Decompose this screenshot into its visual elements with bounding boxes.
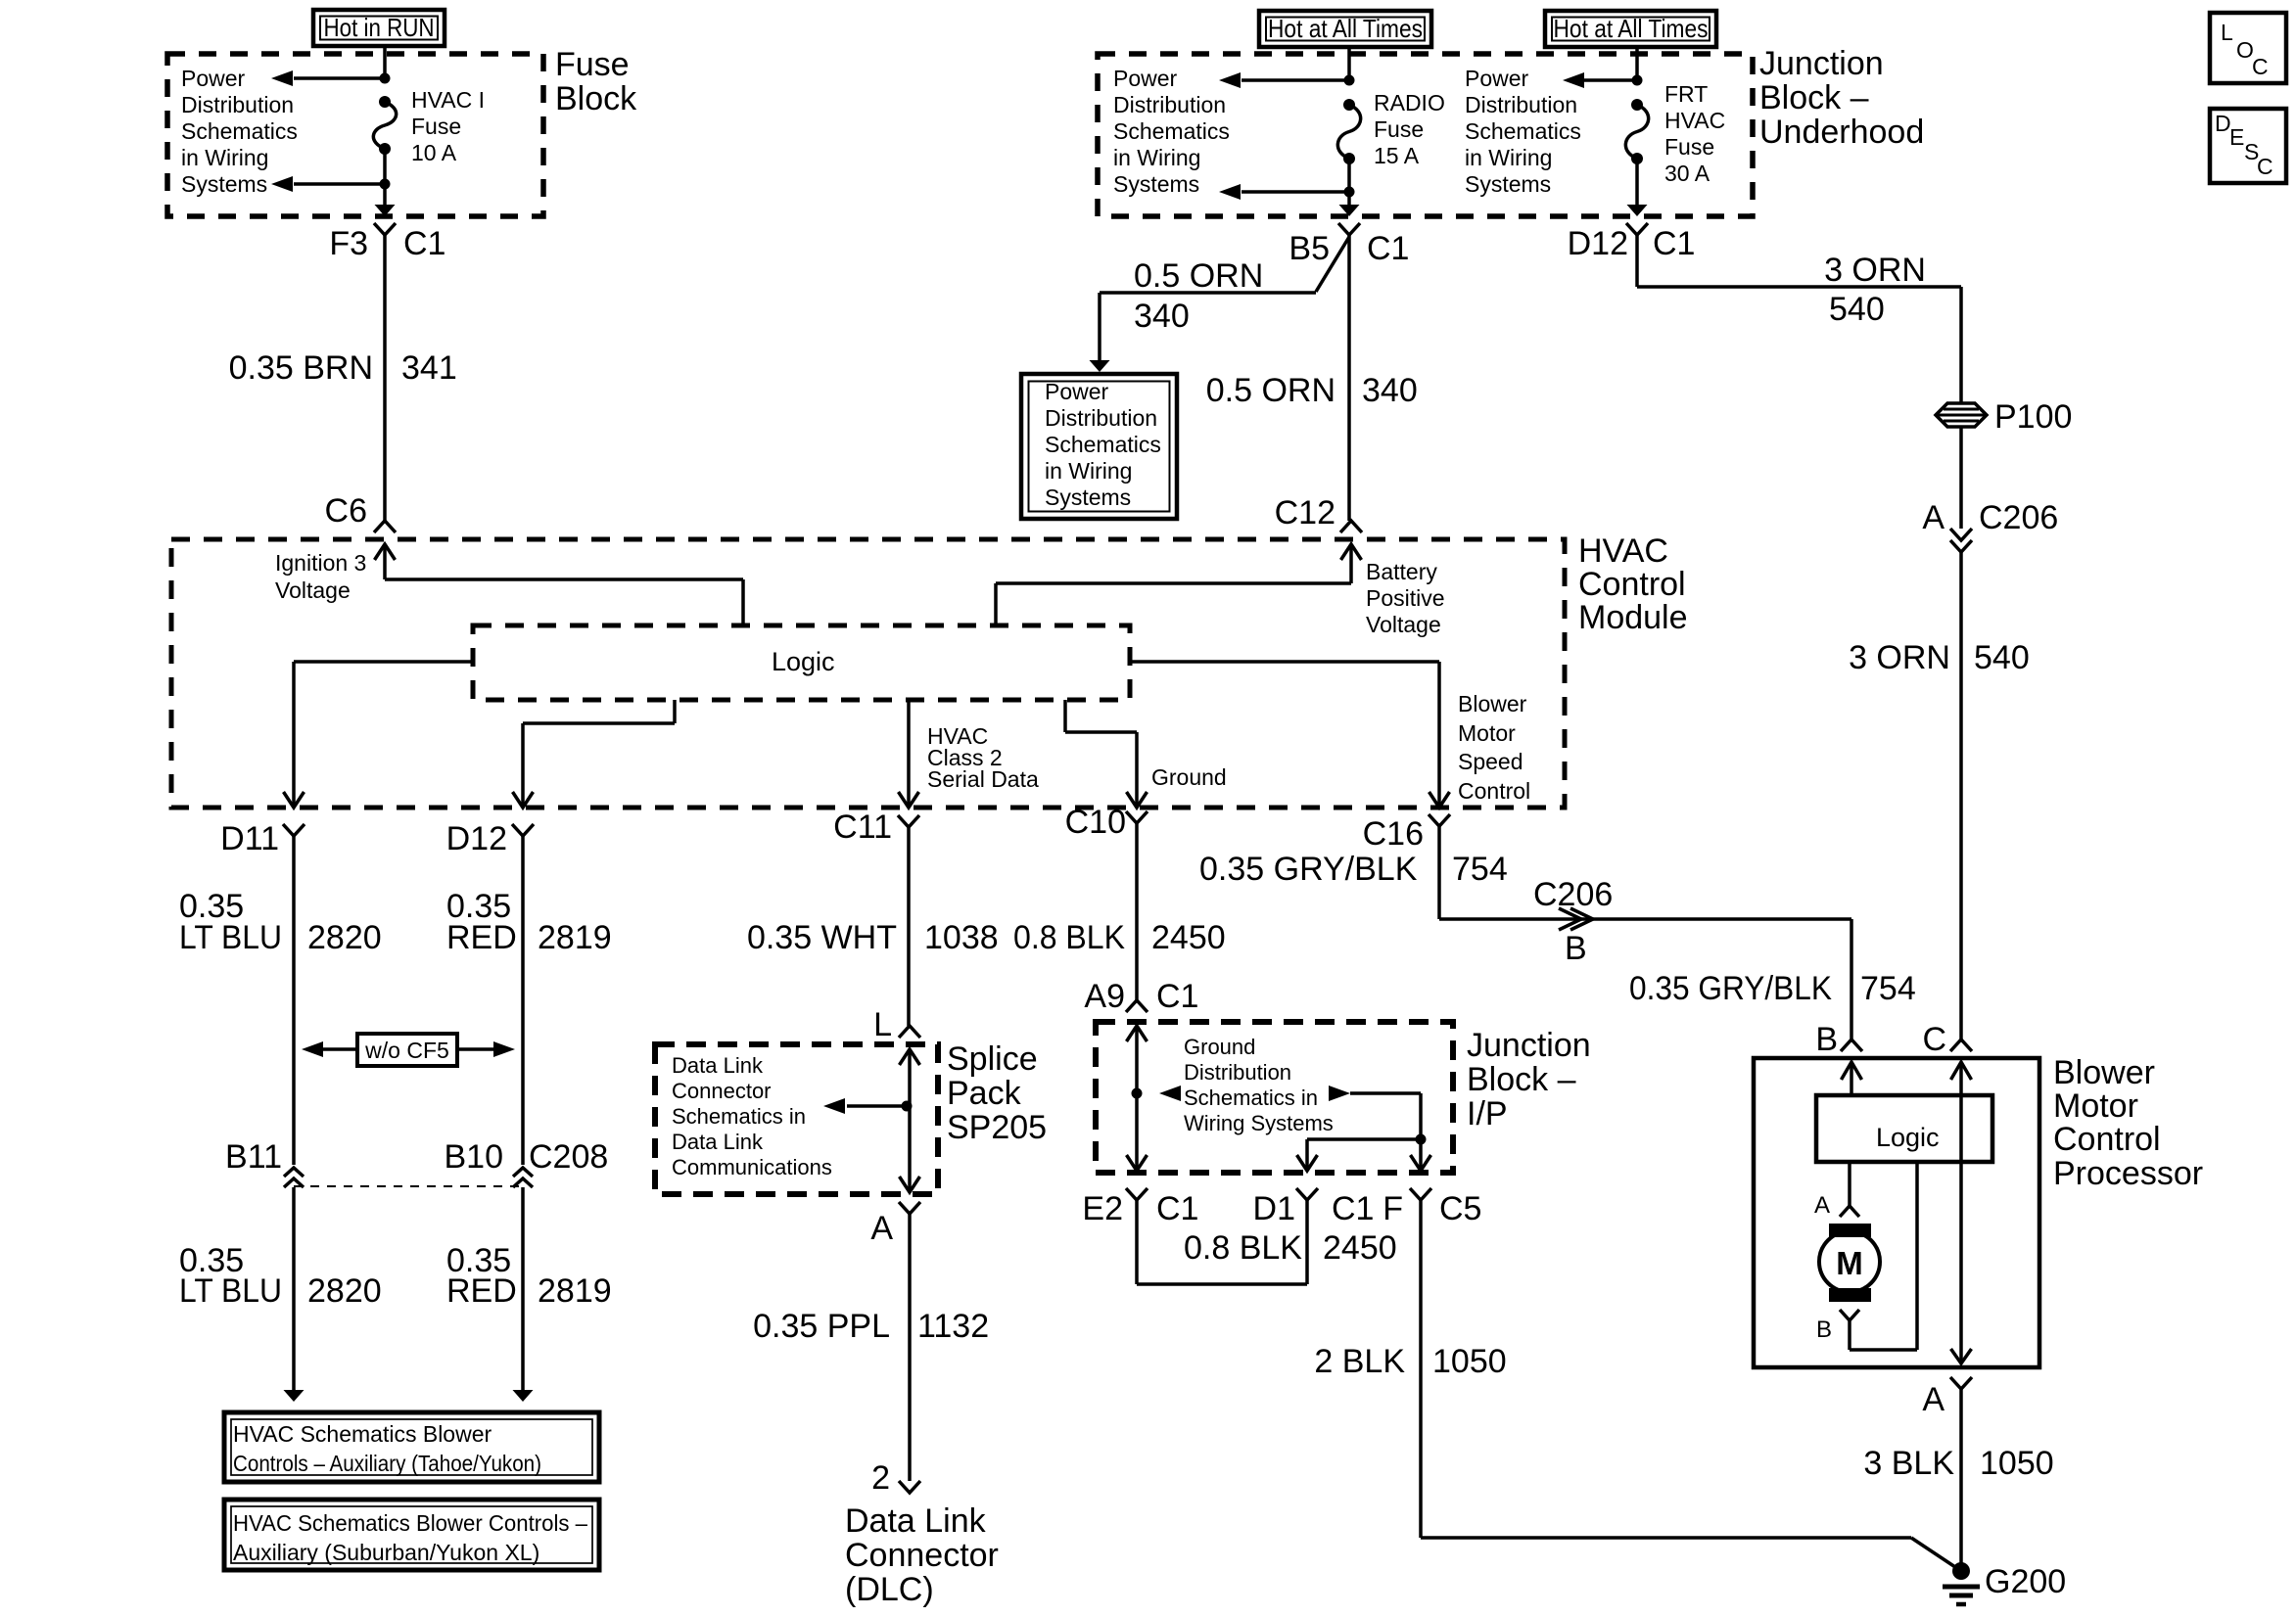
connector chevron D1 (1296, 1188, 1318, 1200)
connector C5 label (1439, 1190, 1481, 1227)
net Ignition 3 Voltage (275, 550, 366, 603)
svg-text:in Wiring: in Wiring (181, 145, 268, 170)
connector chevron A (splice) (899, 1202, 920, 1214)
svg-text:0.5 ORN: 0.5 ORN (1134, 257, 1263, 295)
svg-text:F3: F3 (329, 225, 368, 262)
svg-text:Distribution: Distribution (1113, 92, 1226, 117)
wire F to G200 2 BLK 1050 (1421, 1200, 1958, 1569)
fuse RADIO 15 A (1337, 99, 1360, 164)
wire C206 to C 3 ORN 540 (1959, 552, 1963, 1039)
connector chevron B10 (513, 1168, 533, 1187)
pin D12 (underhood) (1568, 225, 1628, 262)
svg-text:Fuse: Fuse (411, 114, 461, 139)
svg-text:B5: B5 (1289, 230, 1330, 267)
svg-text:Fuse: Fuse (1374, 116, 1424, 142)
pin C11 (833, 808, 892, 846)
wire branch diagonal at B5 (1316, 237, 1349, 292)
wire logic to D12 (513, 700, 676, 808)
svg-text:754: 754 (1452, 851, 1508, 888)
svg-text:Blower: Blower (2053, 1054, 2155, 1091)
junction on F3 wire top (380, 73, 391, 84)
pin B10 (445, 1138, 504, 1176)
svg-text:C: C (1922, 1021, 1946, 1058)
label 540 (top) (1829, 291, 1885, 328)
svg-text:D12: D12 (1568, 225, 1628, 262)
label 2 BLK (1314, 1343, 1405, 1380)
svg-text:0.35 PPL: 0.35 PPL (753, 1308, 890, 1345)
label 340 (1362, 372, 1418, 409)
arrow into blower at C (1951, 1062, 1972, 1080)
wire logic to C10 ground (1065, 700, 1148, 808)
arrow into module at C6 (375, 544, 396, 560)
power label Hot at All Times (radio) (1259, 11, 1431, 47)
label 754 (upper) (1452, 851, 1508, 888)
wire B to logic (blower) (1850, 1062, 1853, 1095)
connector C1 (radio) (1367, 230, 1409, 267)
svg-text:1050: 1050 (1432, 1343, 1507, 1380)
title Junction Block - I/P (1467, 1027, 1591, 1132)
label 2450 (lower) (1323, 1229, 1397, 1267)
svg-text:2 BLK: 2 BLK (1314, 1343, 1405, 1380)
wire A to DLC 0.35 PPL 1132 (908, 1214, 912, 1481)
svg-text:10 A: 10 A (411, 140, 457, 165)
svg-text:Systems: Systems (1045, 485, 1131, 510)
pin B (C206) (1565, 930, 1587, 967)
svg-text:B: B (1815, 1021, 1838, 1058)
svg-text:0.35 BRN: 0.35 BRN (229, 349, 373, 387)
connector chevron C10 (1126, 811, 1148, 823)
wire C through blower (1951, 1062, 1972, 1363)
svg-text:Control: Control (1578, 566, 1686, 603)
power label Hot at All Times (frt hvac) (1545, 11, 1716, 47)
svg-text:Data Link: Data Link (845, 1502, 987, 1540)
pin D11 (220, 820, 279, 857)
svg-text:0.35 WHT: 0.35 WHT (747, 919, 897, 956)
svg-text:Block –: Block – (1467, 1061, 1576, 1098)
svg-text:341: 341 (401, 349, 457, 387)
label 540 (mid) (1974, 639, 2030, 676)
label 2819 (lower) (538, 1272, 612, 1310)
junction dot (F branch) (1416, 1134, 1427, 1145)
svg-text:Block –: Block – (1759, 79, 1869, 116)
pin A (blower exit) (1922, 1381, 1945, 1418)
svg-text:D11: D11 (220, 820, 279, 857)
wire logic to C11 serial data (899, 700, 919, 808)
svg-text:P100: P100 (1994, 398, 2072, 436)
svg-text:Power: Power (1045, 379, 1109, 404)
label 0.35 (ltblu lower) (179, 1242, 244, 1279)
wire C6 to logic (385, 544, 743, 625)
svg-text:Blower: Blower (1458, 691, 1527, 716)
svg-text:0.8 BLK: 0.8 BLK (1013, 919, 1125, 956)
ground G200 (1943, 1562, 1980, 1604)
svg-text:1050: 1050 (1980, 1445, 2054, 1482)
label G200 (1985, 1563, 2066, 1600)
svg-text:A: A (870, 1210, 893, 1247)
svg-text:Controls – Auxiliary (Tahoe/Yu: Controls – Auxiliary (Tahoe/Yukon) (233, 1451, 541, 1476)
fuse FRT HVAC 30 A (1625, 99, 1648, 164)
wire A to G200 3 BLK 1050 (1959, 1389, 1963, 1566)
label 341 (401, 349, 457, 387)
wire through splice pack (900, 1049, 920, 1192)
label 0.35 GRY/BLK (lower) (1629, 970, 1832, 1007)
svg-text:Positive: Positive (1366, 585, 1445, 611)
title Fuse Block (555, 46, 637, 117)
pin B5 (1289, 230, 1330, 267)
label 2819 (upper) (538, 919, 612, 956)
svg-text:Serial Data: Serial Data (927, 766, 1039, 792)
svg-text:HVAC I: HVAC I (411, 87, 485, 113)
arrow to data link note (823, 1098, 907, 1114)
label 3 BLK (1863, 1445, 1954, 1482)
svg-text:Schematics: Schematics (1113, 118, 1230, 144)
svg-text:3 ORN: 3 ORN (1849, 639, 1950, 676)
svg-text:Splice: Splice (947, 1040, 1038, 1078)
splice pack dashed box (655, 1044, 938, 1194)
svg-text:Power: Power (1113, 66, 1178, 91)
svg-text:Logic: Logic (1876, 1123, 1940, 1152)
svg-text:Logic: Logic (772, 647, 835, 676)
connector C208 dashed link (294, 1185, 523, 1187)
svg-text:C: C (2257, 154, 2273, 179)
module HVAC Control Module dashed box (171, 539, 1565, 808)
label RED (lower) (446, 1272, 517, 1310)
svg-text:w/o CF5: w/o CF5 (364, 1038, 449, 1063)
svg-text:Pack: Pack (947, 1075, 1022, 1112)
svg-text:Systems: Systems (181, 171, 267, 197)
connector chevron A (blower exit) (1950, 1377, 1972, 1389)
svg-text:Junction: Junction (1467, 1027, 1591, 1064)
svg-text:Systems: Systems (1465, 171, 1551, 197)
label 0.8 BLK (upper) (1013, 919, 1125, 956)
pin D12 (446, 820, 507, 857)
pin C6 (325, 492, 367, 530)
svg-text:Motor: Motor (2053, 1087, 2138, 1125)
pin 2 (DLC) (871, 1459, 890, 1497)
pin B (motor) (1816, 1317, 1832, 1343)
wire hot to radio fuse (1347, 47, 1351, 80)
label 754 (lower) (1860, 970, 1916, 1007)
connector chevron D12/C1 (1626, 223, 1648, 235)
arrow to power distribution (frt hvac) (1563, 72, 1637, 88)
pin A (splice) (870, 1210, 893, 1247)
svg-text:Hot at All Times: Hot at All Times (1268, 14, 1423, 43)
svg-text:Auxiliary (Suburban/Yukon XL): Auxiliary (Suburban/Yukon XL) (233, 1540, 539, 1565)
svg-text:RED: RED (446, 919, 517, 956)
arrow to power distribution (top, radio) (1219, 72, 1349, 88)
connector chevron B (blower) (1841, 1039, 1862, 1051)
svg-text:D1: D1 (1253, 1190, 1295, 1227)
arrow into splice pack (900, 1049, 920, 1065)
pin B11 (225, 1138, 282, 1176)
svg-text:in Wiring: in Wiring (1045, 458, 1132, 484)
svg-text:in Wiring: in Wiring (1465, 145, 1552, 170)
svg-text:Schematics: Schematics (1465, 118, 1581, 144)
connector chevron C16 (1429, 814, 1450, 826)
svg-text:2819: 2819 (538, 919, 612, 956)
svg-text:C10: C10 (1065, 804, 1126, 841)
label 0.35 GRY/BLK (upper) (1199, 851, 1418, 888)
arrow into module at C12 (1341, 544, 1362, 560)
svg-text:2820: 2820 (307, 1272, 382, 1310)
note power distribution schematics (frt hvac fuse) (1465, 66, 1581, 197)
wire branch to D1 (1297, 1139, 1422, 1171)
arrow to ground dist note (1159, 1086, 1181, 1101)
fuse / junction block dashed box (top) (1098, 54, 1753, 216)
connector chevron E2 (1126, 1188, 1148, 1200)
svg-text:C1: C1 (1653, 225, 1695, 262)
svg-text:Distribution: Distribution (181, 92, 294, 117)
junction dot (ground bus) (1132, 1088, 1143, 1099)
note data link connector schematics (672, 1053, 832, 1179)
svg-text:A: A (1922, 499, 1945, 536)
svg-text:Block: Block (555, 80, 637, 117)
svg-text:Control: Control (2053, 1121, 2161, 1158)
svg-text:2820: 2820 (307, 919, 382, 956)
svg-text:3 ORN: 3 ORN (1824, 252, 1926, 289)
connector chevron D11 (283, 824, 305, 836)
svg-text:Communications: Communications (672, 1155, 832, 1179)
label 0.35 (red upper) (446, 888, 511, 925)
wire P100 to C206-A (1959, 427, 1963, 529)
svg-text:Data Link: Data Link (672, 1053, 764, 1078)
node HVAC schematics Suburban/Yukon XL box (224, 1500, 599, 1570)
arrow to power distribution (bottom, radio) (1219, 184, 1349, 200)
svg-text:RED: RED (446, 1272, 517, 1310)
label 340 (branch) (1134, 298, 1190, 335)
label 3 ORN (mid) (1849, 639, 1950, 676)
svg-text:G200: G200 (1985, 1563, 2066, 1600)
connector chevron B (motor) (1840, 1310, 1859, 1320)
svg-text:C206: C206 (1979, 499, 2058, 536)
motor M1 blower (1819, 1224, 1880, 1302)
svg-text:Control: Control (1458, 778, 1530, 804)
label 2820 (upper) (307, 919, 382, 956)
svg-text:Module: Module (1578, 599, 1688, 636)
svg-text:0.8 BLK: 0.8 BLK (1184, 1229, 1302, 1267)
svg-text:Distribution: Distribution (1045, 405, 1157, 431)
connector chevron DLC pin 2 (899, 1481, 920, 1493)
label 0.5 ORN (1206, 372, 1335, 409)
label 1050 (3blk) (1980, 1445, 2054, 1482)
arrow into junction block (1127, 1026, 1148, 1041)
title HVAC Control Module (1578, 532, 1688, 636)
label P100 (1994, 398, 2072, 436)
svg-text:Underhood: Underhood (1759, 114, 1924, 151)
wire through junction block (1127, 1026, 1148, 1171)
connector chevron B5/C1 (1338, 223, 1360, 235)
wire fuse to F3 output (375, 149, 396, 216)
svg-text:Motor: Motor (1458, 720, 1516, 746)
connector chevron C11 (898, 815, 919, 827)
net Battery Positive Voltage (1366, 559, 1445, 637)
pin C10 (1065, 804, 1126, 841)
svg-text:Junction: Junction (1759, 45, 1884, 82)
svg-text:L: L (2221, 20, 2233, 45)
svg-text:A9: A9 (1084, 978, 1125, 1015)
svg-text:B11: B11 (225, 1138, 282, 1176)
svg-text:RADIO: RADIO (1374, 90, 1445, 115)
svg-text:Ignition 3: Ignition 3 (275, 550, 366, 576)
svg-text:(DLC): (DLC) (845, 1571, 934, 1608)
connector chevron A (motor) (1840, 1206, 1859, 1217)
label HVAC I Fuse 10 A (411, 87, 485, 165)
svg-text:HVAC Schematics Blower Control: HVAC Schematics Blower Controls – (233, 1510, 587, 1536)
pin A (motor) (1814, 1192, 1830, 1219)
svg-text:C1: C1 (1156, 978, 1198, 1015)
connector C1 label (D1) (1332, 1190, 1374, 1227)
svg-text:C12: C12 (1275, 494, 1335, 531)
logic block (blower) (1816, 1095, 1992, 1162)
svg-text:15 A: 15 A (1374, 143, 1420, 168)
connector chevron F (1410, 1188, 1431, 1200)
svg-text:0.35 GRY/BLK: 0.35 GRY/BLK (1199, 851, 1418, 888)
svg-text:Voltage: Voltage (1366, 612, 1441, 637)
svg-text:FRT: FRT (1664, 81, 1708, 107)
pin F (1382, 1190, 1403, 1227)
logic block (hvac module) (473, 625, 1130, 700)
svg-text:Ground: Ground (1184, 1035, 1255, 1059)
wire B10 down 0.35 RED 2819 (513, 1187, 534, 1402)
svg-text:I/P: I/P (1467, 1095, 1508, 1132)
svg-text:C1: C1 (1367, 230, 1409, 267)
note power distribution schematics (radio fuse) (1113, 66, 1230, 197)
node Data Link Connector (DLC) (845, 1502, 999, 1608)
wire C206-B to blower B (1850, 919, 1853, 1039)
svg-text:30 A: 30 A (1664, 161, 1710, 186)
svg-text:Speed: Speed (1458, 749, 1523, 774)
svg-text:340: 340 (1362, 372, 1418, 409)
legend DESC box (2210, 109, 2286, 183)
connector C206 chevrons (inline) (1559, 908, 1593, 930)
fuse block dashed box (167, 54, 543, 216)
svg-text:Schematics in: Schematics in (672, 1104, 806, 1129)
svg-text:Systems: Systems (1113, 171, 1199, 197)
wire C11 to L 0.35 WHT 1038 (907, 827, 911, 1026)
label RED (upper) (446, 919, 517, 956)
svg-text:0.5 ORN: 0.5 ORN (1206, 372, 1335, 409)
svg-text:M: M (1836, 1245, 1863, 1281)
svg-text:Schematics: Schematics (1045, 432, 1161, 457)
wire logic to motor A (1848, 1162, 1851, 1206)
title Blower Motor Control Processor (2053, 1054, 2203, 1192)
wire D11 to B11 0.35 LT BLU 2820 (292, 836, 296, 1165)
svg-text:C1: C1 (403, 225, 445, 262)
svg-text:Distribution: Distribution (1184, 1060, 1291, 1085)
svg-text:540: 540 (1974, 639, 2030, 676)
connector chevron C12 (1340, 521, 1362, 532)
svg-text:SP205: SP205 (947, 1109, 1047, 1146)
label 0.35 (ltblu upper) (179, 888, 244, 925)
wire radio fuse to B5 output (1339, 159, 1360, 216)
junction on F3 wire bottom (380, 179, 391, 190)
svg-text:Schematics: Schematics (181, 118, 298, 144)
svg-text:D12: D12 (446, 820, 507, 857)
svg-text:C1: C1 (1332, 1190, 1374, 1227)
net Ground (hvac module) (1151, 764, 1227, 790)
connector C208 label (529, 1138, 608, 1176)
wire Hot-in-RUN to fuse block (383, 46, 387, 78)
connector C1 label (E2) (1156, 1190, 1198, 1227)
connector chevron A9 (1126, 1000, 1148, 1012)
power label Hot in RUN (313, 10, 445, 46)
label Logic (blower) (1876, 1123, 1940, 1152)
svg-text:Wiring Systems: Wiring Systems (1184, 1111, 1334, 1135)
svg-text:2: 2 (871, 1459, 890, 1497)
label 3 ORN (top) (1824, 252, 1926, 289)
svg-text:B10: B10 (445, 1138, 504, 1176)
svg-text:2819: 2819 (538, 1272, 612, 1310)
arrow w/o CF5 right (457, 1041, 515, 1057)
svg-text:C206: C206 (1533, 876, 1613, 913)
option box w/o CF5 (357, 1034, 457, 1066)
svg-text:HVAC Schematics Blower: HVAC Schematics Blower (233, 1421, 492, 1447)
svg-text:Distribution: Distribution (1465, 92, 1577, 117)
connector C206 label (mid) (1533, 876, 1613, 913)
svg-text:C5: C5 (1439, 1190, 1481, 1227)
svg-text:754: 754 (1860, 970, 1916, 1007)
wire F3 to C6 0.35 BRN 341 (383, 235, 387, 521)
label 0.35 BRN (229, 349, 373, 387)
svg-text:A: A (1922, 1381, 1945, 1418)
label LT BLU (upper) (179, 919, 282, 956)
legend LOC box (2210, 13, 2286, 83)
svg-text:C1: C1 (1156, 1190, 1198, 1227)
arrow to power distribution (top, fuse block) (271, 70, 385, 86)
connector P100 grommet (1936, 403, 1987, 427)
label 1132 (917, 1308, 989, 1345)
label 0.35 PPL (753, 1308, 890, 1345)
svg-text:L: L (873, 1006, 892, 1043)
svg-text:Hot at All Times: Hot at All Times (1554, 14, 1709, 43)
note power distribution schematics (fuse block) (181, 66, 298, 197)
title Splice Pack SP205 (947, 1040, 1047, 1146)
svg-text:HVAC: HVAC (1578, 532, 1668, 570)
connector chevron C6 (374, 521, 396, 532)
note ground distribution schematics (1184, 1035, 1334, 1135)
net HVAC Class 2 Serial Data (927, 723, 1039, 792)
connector chevron F3/C1 (374, 223, 396, 235)
svg-text:in Wiring: in Wiring (1113, 145, 1200, 170)
svg-text:C16: C16 (1363, 815, 1424, 853)
svg-text:Connector: Connector (672, 1079, 772, 1103)
connector chevron L (899, 1026, 920, 1038)
svg-text:C6: C6 (325, 492, 367, 530)
module Blower Motor Control Processor box (1754, 1058, 2039, 1367)
wire note to F branch (1350, 1093, 1431, 1171)
svg-text:LT BLU: LT BLU (179, 919, 282, 956)
svg-text:E: E (2229, 124, 2244, 150)
svg-text:A: A (1814, 1192, 1830, 1219)
svg-text:Ground: Ground (1151, 764, 1227, 790)
wire hot to frt hvac fuse (1635, 47, 1639, 80)
svg-text:0.35 GRY/BLK: 0.35 GRY/BLK (1629, 970, 1832, 1007)
arrow to power distribution (bottom, fuse block) (271, 176, 385, 192)
connector chevron C206-A double (1950, 529, 1972, 552)
svg-text:Power: Power (181, 66, 246, 91)
pin C16 (1363, 815, 1424, 853)
svg-text:540: 540 (1829, 291, 1885, 328)
wire B5 to C12 0.5 ORN 340 (1347, 235, 1351, 521)
connector C1 label (A9) (1156, 978, 1198, 1015)
pin A (C206) (1922, 499, 1945, 536)
svg-text:3 BLK: 3 BLK (1863, 1445, 1954, 1482)
svg-text:C208: C208 (529, 1138, 608, 1176)
pin C (blower) (1922, 1021, 1946, 1058)
arrow w/o CF5 left (302, 1041, 357, 1057)
svg-text:1132: 1132 (917, 1308, 989, 1345)
connector chevron C (blower) (1950, 1039, 1972, 1051)
